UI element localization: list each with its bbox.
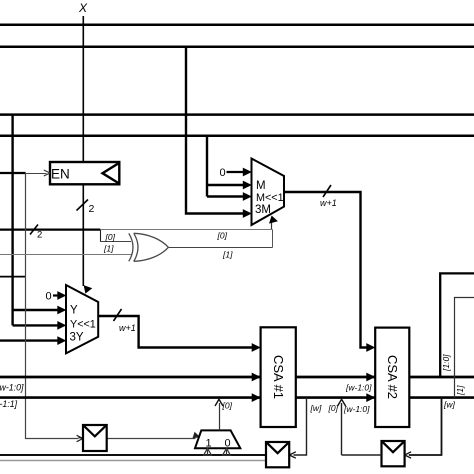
wire bottom mux input 0 arrow (223, 448, 231, 455)
wire vertical from H3 feeding Y and Y<<1 (11, 115, 13, 326)
wire EN enable thin wire (25, 173, 47, 175)
wire 3M input arrowhead (243, 209, 252, 218)
wire M input arrowhead (243, 181, 252, 190)
wire thick stub joining enable net (0, 276, 26, 278)
wire bus [w-1:0] (partial products sum bus) (0, 376, 474, 379)
wire FF3 output to feedback vertical (342, 454, 382, 456)
wire bit tap [0] vertical at bus end (100, 230, 102, 242)
svg-text:[w]: [w] (310, 403, 323, 413)
wire FF1 input arrowhead (77, 435, 83, 441)
wire 3Y input (0, 339, 62, 341)
wire vertical from H2 to 3M input (186, 47, 248, 214)
svg-text:[0]: [0] (222, 401, 233, 411)
svg-text:[1:0]: [1:0] (441, 354, 451, 372)
wire bus H4 (0, 135, 474, 138)
wire Y<<1 input (13, 324, 62, 326)
svg-text:Y<<1: Y<<1 (70, 319, 96, 331)
wire FF3 output feedback up to bus2 (341, 403, 343, 455)
svg-text:w-1:0]: w-1:0] (0, 383, 24, 393)
wire EN enable arrowhead (44, 170, 50, 176)
svg-text:[0]: [0] (217, 231, 228, 241)
wire 0 input to Y mux (53, 294, 62, 296)
gate XOR U1 (129, 233, 169, 261)
wire CSA1 input arrowhead from bus1 (252, 373, 261, 382)
wire Y mux select arrowhead (81, 285, 92, 295)
wire bottom mux input 1 arrow (204, 448, 212, 455)
flip-flop FF1 (83, 425, 107, 451)
svg-text:M<<1: M<<1 (256, 192, 284, 204)
svg-text:X: X (78, 1, 88, 15)
svg-text:0: 0 (225, 438, 231, 450)
label slash 2 below X register (77, 200, 89, 211)
wire XOR input [1] (0, 254, 133, 256)
wire bus H3 (0, 113, 474, 116)
wire M mux output w+1 (284, 192, 371, 348)
svg-text:0: 0 (46, 291, 52, 303)
svg-text:3Y: 3Y (70, 332, 84, 344)
wire 2-bit bus from X register (left stub) (0, 229, 100, 231)
label slash 2 on 2-bit bus (30, 225, 38, 235)
svg-text:CSA #1: CSA #1 (271, 355, 286, 399)
wire bus [w-1:1] (0, 396, 474, 399)
wire FF2 input arrowhead (289, 452, 295, 458)
wire EN enable feed (thick stub from left) (0, 172, 26, 174)
wire feedback up-arrowhead at bus2 (338, 399, 346, 406)
label slash w+1 on M mux output (323, 185, 331, 197)
wire XOR input [0] (100, 241, 131, 243)
svg-text:[w-1:0]: [w-1:0] (343, 404, 370, 414)
wire Y<<1 input arrowhead (57, 321, 66, 330)
wire M input (207, 184, 248, 186)
wire CSA2 input arrowhead from bus1 (366, 373, 375, 382)
svg-text:0: 0 (220, 167, 226, 179)
svg-text:[1]: [1] (103, 244, 114, 254)
wire XOR output up to select net (272, 230, 274, 248)
register EN (X register) (50, 162, 119, 184)
wire FF3 input from [w] tap right of CSA2 (409, 398, 442, 455)
wire FF2 output rail going left (0, 454, 266, 456)
wire bottom mux select arrowhead (192, 432, 201, 441)
svg-text:M: M (256, 180, 266, 192)
wire bottom mux output up to bus2 with arrowhead (219, 403, 221, 430)
wire bus H2 (0, 45, 474, 48)
wire enable net vertical down to FF1 (26, 173, 79, 439)
svg-text:[1]: [1] (455, 385, 465, 396)
wire Y input (12, 309, 62, 311)
wire CSA2 input arrowhead from bus2 (366, 393, 375, 402)
adder CSA #1 (261, 327, 296, 427)
wire M<<1 input (207, 195, 248, 197)
svg-text:EN: EN (51, 167, 70, 182)
svg-text:2: 2 (89, 203, 95, 215)
label slash w+1 on Y mux output (114, 309, 122, 321)
multiplexer M mux (252, 159, 285, 226)
wire vertical from H4 feeding M and M<<1 (206, 136, 208, 197)
svg-text:3M: 3M (255, 204, 271, 216)
adder CSA #2 (375, 328, 409, 427)
multiplexer bottom mux (1/0) (195, 430, 240, 449)
node X (78, 1, 88, 15)
wire [w] tap vertical down to FF2 (294, 398, 307, 455)
svg-text:[w-1:0]: [w-1:0] (345, 383, 372, 393)
svg-text:CSA #2: CSA #2 (385, 355, 400, 399)
wire FF3 input arrowhead (405, 452, 411, 458)
svg-text:w+1: w+1 (320, 198, 337, 208)
svg-text:1: 1 (206, 438, 212, 450)
flip-flop FF2 (266, 442, 289, 467)
wire Y mux output w+1 (98, 316, 256, 348)
wire clock gray rail (0, 460, 266, 462)
svg-text:w+1: w+1 (119, 323, 136, 333)
wire FF1 output to bottom mux select (107, 438, 196, 440)
svg-text:-1:1]: -1:1] (0, 399, 18, 409)
wire 3Y input arrowhead (57, 336, 66, 345)
svg-text:[1]: [1] (222, 250, 233, 260)
wire CSA1 input arrowhead from bus2 (252, 393, 261, 402)
wire M mux select arrowhead (271, 221, 273, 230)
svg-text:2: 2 (37, 230, 42, 241)
svg-text:[0]: [0] (105, 232, 116, 242)
multiplexer Y mux (66, 285, 98, 353)
flip-flop FF3 (382, 441, 405, 466)
wire feedback [1] thin L to right edge (455, 298, 474, 398)
svg-text:[w]: [w] (443, 400, 456, 410)
svg-text:Y: Y (70, 305, 78, 317)
wire 0 input to M mux (227, 171, 248, 173)
wire bus H1 (0, 23, 474, 26)
wire CSA1 input arrowhead from Y mux (252, 343, 261, 352)
wire X vertical input line (82, 16, 84, 286)
svg-text:[0]: [0] (328, 403, 339, 413)
wire CSA2 input arrowhead from M mux (366, 343, 375, 352)
wire 0 input arrowhead M mux (243, 168, 252, 177)
wire M<<1 input arrowhead (243, 192, 252, 201)
wire feedback [1:0] thick L to right edge (440, 273, 474, 377)
wire select net horizontal to M mux (101, 229, 273, 231)
wire XOR output (169, 247, 273, 249)
wire 0 input arrowhead Y mux (57, 291, 66, 300)
wire Y input arrowhead (57, 306, 66, 315)
